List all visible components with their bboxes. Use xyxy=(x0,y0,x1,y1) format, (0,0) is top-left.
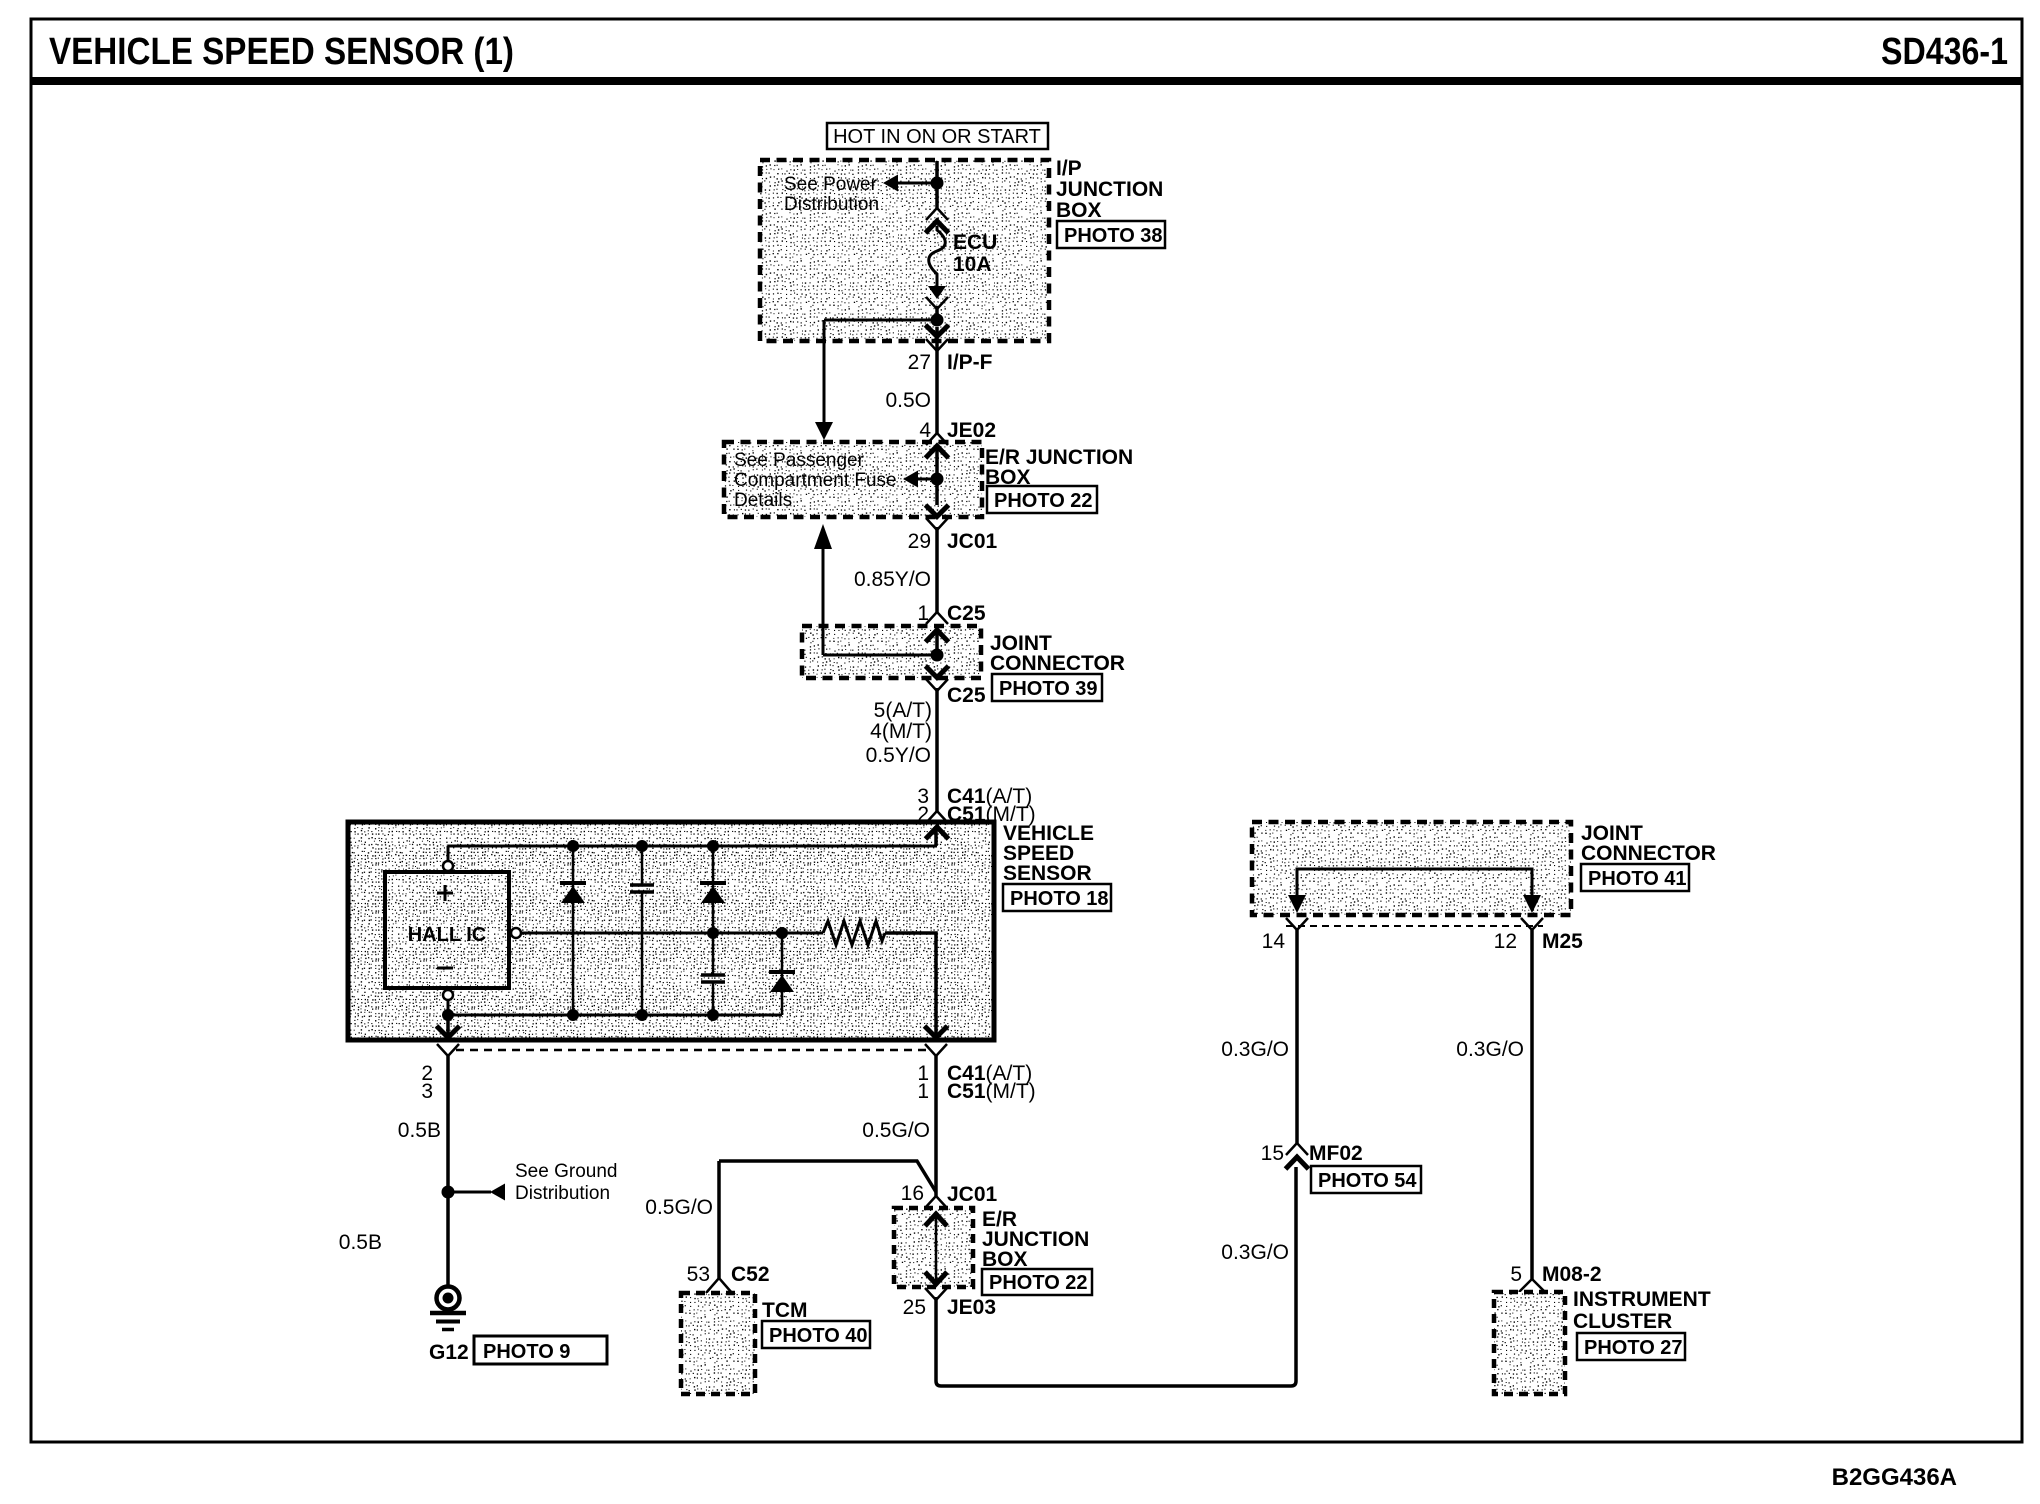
svg-text:PHOTO 18: PHOTO 18 xyxy=(1010,888,1109,910)
svg-text:SENSOR: SENSOR xyxy=(1003,862,1092,885)
fuse ECU 10A element (S-curve) xyxy=(929,226,946,288)
svg-text:PHOTO 40: PHOTO 40 xyxy=(769,1325,868,1347)
svg-text:JC01: JC01 xyxy=(947,1183,998,1206)
svg-text:0.5G/O: 0.5G/O xyxy=(645,1196,713,1219)
wire through E/R box xyxy=(935,446,939,505)
pins 1/1 and connector C41/C51 labels right xyxy=(917,1062,1035,1103)
svg-text:4(M/T): 4(M/T) xyxy=(870,720,932,743)
svg-text:0.85Y/O: 0.85Y/O xyxy=(854,568,931,591)
label: See Passenger Compartment Fuse Details xyxy=(734,450,897,511)
PHOTO 40 label box xyxy=(762,1321,870,1348)
wire: TCM branch down xyxy=(717,1161,721,1278)
I/P junction box labels xyxy=(1056,157,1163,222)
connector chevrons entering vehicle speed sensor xyxy=(926,811,948,823)
svg-text:ECU: ECU xyxy=(953,231,997,254)
wire stub to ground distribution arrow xyxy=(448,1191,491,1194)
svg-text:PHOTO 22: PHOTO 22 xyxy=(994,490,1093,512)
connector M25 boundary dashed line xyxy=(1286,925,1543,927)
svg-text:10A: 10A xyxy=(953,253,992,276)
svg-text:See Power: See Power xyxy=(784,174,878,195)
junction node in E/R box xyxy=(931,473,944,486)
junction node above fuse xyxy=(931,177,944,190)
connector chevron below pin 14 xyxy=(1286,918,1308,930)
junction nodes top rail xyxy=(567,840,579,852)
svg-text:14: 14 xyxy=(1262,930,1286,953)
connector JC01 chevrons leaving E/R box xyxy=(926,505,949,517)
PHOTO 9 label box xyxy=(474,1336,607,1364)
svg-text:PHOTO 22: PHOTO 22 xyxy=(989,1272,1088,1294)
svg-text:JC01: JC01 xyxy=(947,530,998,553)
svg-text:C51(M/T): C51(M/T) xyxy=(947,1080,1036,1103)
svg-text:M25: M25 xyxy=(1542,930,1583,953)
svg-text:5(A/T): 5(A/T) xyxy=(874,699,932,722)
PHOTO 54 label box xyxy=(1311,1166,1421,1193)
wire: hall top stub xyxy=(447,846,450,862)
svg-text:15: 15 xyxy=(1261,1142,1284,1165)
svg-text:M08-2: M08-2 xyxy=(1542,1263,1602,1286)
connector C25 chevrons entering joint connector xyxy=(926,612,948,624)
svg-text:CONNECTOR: CONNECTOR xyxy=(990,652,1125,675)
wire: JC01 to C25 xyxy=(935,527,939,612)
PHOTO 27 label box xyxy=(1577,1333,1685,1360)
joint connector box (dashed, stippled) xyxy=(802,626,981,678)
diode D2 xyxy=(700,846,726,933)
svg-text:Distribution: Distribution xyxy=(784,194,879,215)
svg-text:C25: C25 xyxy=(947,602,986,625)
svg-text:0.5B: 0.5B xyxy=(339,1231,382,1254)
E/R junction box 1 labels xyxy=(985,446,1133,489)
hall IC output terminal xyxy=(511,928,521,938)
hall IC plus mark xyxy=(437,885,453,901)
hall IC minus mark xyxy=(437,967,453,970)
connector chevron below pin 12 xyxy=(1521,918,1543,930)
svg-text:0.3G/O: 0.3G/O xyxy=(1221,1241,1289,1264)
PHOTO 38 label box xyxy=(1057,221,1165,248)
wire: battery feed into I/P box xyxy=(935,161,939,183)
PHOTO 41 label box xyxy=(1581,864,1689,891)
junction node in joint connector xyxy=(931,649,944,662)
svg-text:53: 53 xyxy=(687,1263,710,1286)
arrow to ground distribution xyxy=(490,1184,505,1201)
svg-text:G12: G12 xyxy=(429,1341,469,1364)
svg-text:JE02: JE02 xyxy=(947,419,996,442)
pin 15 / connector MF02 labels xyxy=(1261,1142,1363,1165)
svg-text:25: 25 xyxy=(903,1296,926,1319)
svg-text:JE03: JE03 xyxy=(947,1296,996,1319)
svg-text:PHOTO 38: PHOTO 38 xyxy=(1064,225,1163,247)
wire inside joint connector (U link) xyxy=(1297,869,1532,904)
svg-text:HALL IC: HALL IC xyxy=(408,924,487,946)
arrow up into E/R junction box xyxy=(814,524,832,549)
svg-text:BOX: BOX xyxy=(982,1248,1028,1271)
wire: C25 to vehicle speed sensor xyxy=(935,688,939,813)
PHOTO 39 label box xyxy=(992,674,1102,701)
pin 53 / connector C52 labels xyxy=(687,1263,770,1286)
vehicle speed sensor box (stippled) xyxy=(348,822,994,1040)
wire: joint connector branch left xyxy=(823,654,937,657)
connector 27 I/P-F leaving I/P box xyxy=(926,325,949,337)
arrow to power distribution xyxy=(883,175,898,192)
joint connector right labels xyxy=(1581,822,1716,865)
wire: branch up toward E/R box xyxy=(822,548,825,655)
svg-text:0.5G/O: 0.5G/O xyxy=(862,1119,930,1142)
diode D1 xyxy=(560,846,586,1015)
wire: top supply rail xyxy=(448,845,937,848)
svg-text:3: 3 xyxy=(421,1080,433,1103)
pin 27 / connector I/P-F labels xyxy=(908,351,993,374)
pin 2 / connector C51(M/T) labels xyxy=(917,803,1035,826)
svg-text:12: 12 xyxy=(1494,930,1517,953)
connector C25 chevrons leaving joint connector xyxy=(926,666,949,678)
wire to arrow xyxy=(918,478,933,481)
fuse label ECU 10A xyxy=(953,231,997,276)
pin 3 / connector C41(A/T) labels xyxy=(917,785,1032,808)
pin 29 / connector JC01 labels xyxy=(908,530,998,553)
arrow down at pin 14 xyxy=(1288,895,1306,913)
resistor R1 xyxy=(823,921,885,945)
capacitor C2 xyxy=(701,933,725,1015)
connector JC01 chevrons entering E/R box 2 xyxy=(925,1196,947,1208)
instrument cluster labels xyxy=(1573,1288,1711,1333)
wire: fuse to lower junction xyxy=(935,306,939,316)
joint connector box right (dashed, stippled) xyxy=(1252,822,1571,915)
node: HOT IN ON OR START label box xyxy=(827,123,1048,149)
svg-text:See Passenger: See Passenger xyxy=(734,450,865,471)
junction nodes ground rail xyxy=(442,1009,454,1021)
pin 4 / connector JE02 labels xyxy=(919,419,996,442)
svg-text:BOX: BOX xyxy=(1056,199,1102,222)
svg-text:HOT IN ON OR START: HOT IN ON OR START xyxy=(833,126,1041,148)
wire: bottom ground rail xyxy=(448,1014,782,1017)
svg-text:JUNCTION: JUNCTION xyxy=(1056,178,1163,201)
svg-text:SD436-1: SD436-1 xyxy=(1881,31,2008,73)
joint connector labels xyxy=(990,632,1125,675)
svg-text:27: 27 xyxy=(908,351,931,374)
pin 5 / connector M08-2 labels xyxy=(1510,1263,1601,1286)
wire: dot to fuse xyxy=(935,183,939,208)
PHOTO 18 label box xyxy=(1003,884,1111,911)
svg-text:0.5B: 0.5B xyxy=(398,1119,441,1142)
pins 2/3 labels left xyxy=(421,1062,433,1103)
svg-text:TCM: TCM xyxy=(762,1299,808,1322)
hall IC top terminal xyxy=(443,861,453,871)
connector JE03 chevrons leaving E/R box 2 xyxy=(925,1288,947,1300)
svg-text:Compartment Fuse: Compartment Fuse xyxy=(734,470,897,491)
connector 53 C52 fork into TCM xyxy=(706,1278,732,1293)
label: See Power Distribution xyxy=(784,174,879,215)
svg-text:1: 1 xyxy=(917,1080,929,1103)
wire: I/P-F to JE02 xyxy=(935,327,939,433)
connector MF02 chevrons xyxy=(1286,1143,1308,1155)
pin 1 / connector C25 labels xyxy=(917,602,986,625)
svg-text:PHOTO 41: PHOTO 41 xyxy=(1588,868,1687,890)
fuse ECU 10A upper terminal chevrons xyxy=(926,208,948,220)
wire: entry riser to top rail xyxy=(934,826,938,846)
wire: sensor output down to JC01 xyxy=(934,1056,938,1196)
svg-text:Distribution: Distribution xyxy=(515,1183,610,1204)
svg-text:INSTRUMENT: INSTRUMENT xyxy=(1573,1288,1711,1311)
svg-text:Details: Details xyxy=(734,490,792,511)
arrow down at pin 12 xyxy=(1523,895,1541,913)
svg-text:C52: C52 xyxy=(731,1263,770,1286)
wire: sensor ground lead down xyxy=(446,1056,450,1286)
op-amp HALL IC box xyxy=(385,872,509,988)
connector boundary dashed line below sensor xyxy=(456,1049,926,1052)
diode D3 xyxy=(769,933,795,1015)
pin 25 / connector JE03 labels xyxy=(903,1296,996,1319)
svg-text:VEHICLE SPEED SENSOR (1): VEHICLE SPEED SENSOR (1) xyxy=(49,31,514,73)
connector chevrons leaving sensor left xyxy=(437,1026,460,1038)
svg-text:0.3G/O: 0.3G/O xyxy=(1221,1038,1289,1061)
svg-text:PHOTO 9: PHOTO 9 xyxy=(483,1341,570,1363)
wire: branch to TCM (horizontal) xyxy=(719,1161,936,1192)
E/R junction box 1 (dashed, stippled) xyxy=(724,442,982,517)
PHOTO 22 label box 2 xyxy=(982,1269,1092,1295)
wire: left exit to box edge xyxy=(446,1015,450,1040)
instrument cluster box (dashed, stippled) xyxy=(1494,1292,1565,1394)
TCM box (dashed, stippled) xyxy=(681,1293,755,1394)
pin 16 / connector JC01 labels xyxy=(901,1182,998,1206)
svg-text:I/P: I/P xyxy=(1056,157,1082,180)
pin 5(A/T) 4(M/T) labels xyxy=(870,699,932,743)
E/R junction box 2 (dashed, stippled) xyxy=(894,1208,973,1287)
hall IC bottom terminal xyxy=(443,990,453,1000)
wire: hall output rail xyxy=(521,932,823,935)
PHOTO 22 label box xyxy=(987,486,1097,513)
svg-text:C25: C25 xyxy=(947,684,986,707)
connector chevrons leaving sensor right xyxy=(925,1026,948,1038)
svg-text:CONNECTOR: CONNECTOR xyxy=(1581,842,1716,865)
fuse lower terminal arrow xyxy=(928,286,946,299)
wire: pin 12 down to instrument cluster xyxy=(1530,930,1534,1280)
thick rule under title xyxy=(31,77,2022,85)
label: See Ground Distribution xyxy=(515,1161,617,1204)
wire: left branch down to E/R box xyxy=(823,320,826,424)
svg-text:0.3G/O: 0.3G/O xyxy=(1456,1038,1524,1061)
wire to arrow xyxy=(898,182,933,185)
E/R junction box 2 labels xyxy=(982,1208,1089,1271)
svg-text:B2GG436A: B2GG436A xyxy=(1832,1464,1957,1491)
svg-text:5: 5 xyxy=(1510,1263,1522,1286)
connector JE02 chevrons entering E/R box xyxy=(926,433,948,445)
wire: hall bottom stub xyxy=(447,1000,450,1015)
wire: pin 14 down to MF02 xyxy=(1295,930,1299,1143)
svg-text:PHOTO 54: PHOTO 54 xyxy=(1318,1170,1417,1192)
svg-text:29: 29 xyxy=(908,530,931,553)
svg-text:CLUSTER: CLUSTER xyxy=(1573,1310,1672,1333)
ground G12 symbol xyxy=(430,1287,466,1330)
svg-text:See Ground: See Ground xyxy=(515,1161,617,1182)
svg-text:0.5O: 0.5O xyxy=(885,389,931,412)
arrow into E/R junction box xyxy=(815,422,833,440)
svg-text:PHOTO 27: PHOTO 27 xyxy=(1584,1337,1683,1359)
wire through E/R box 2 (double arrow) xyxy=(925,1214,947,1284)
svg-text:0.5Y/O: 0.5Y/O xyxy=(866,744,931,767)
junction node on ground lead xyxy=(442,1186,455,1199)
wire: resistor to output riser xyxy=(885,933,936,1040)
junction nodes output rail xyxy=(707,927,719,939)
arrow to passenger compartment fuse details xyxy=(903,471,918,488)
vehicle speed sensor labels xyxy=(1003,822,1094,885)
I/P junction box (dashed, stippled) xyxy=(760,160,1049,341)
wire inside joint connector xyxy=(935,633,939,655)
junction node below fuse xyxy=(931,314,944,327)
svg-text:MF02: MF02 xyxy=(1309,1142,1363,1165)
wire: branch left inside I/P box xyxy=(824,319,937,322)
svg-text:I/P-F: I/P-F xyxy=(947,351,993,374)
connector M08-2 fork into instrument cluster xyxy=(1519,1279,1545,1292)
pin 12 / connector M25 labels xyxy=(1494,930,1584,953)
svg-text:PHOTO 39: PHOTO 39 xyxy=(999,678,1098,700)
wire: JE03 down, along bottom, up to MF02 xyxy=(936,1167,1296,1386)
svg-text:16: 16 xyxy=(901,1182,924,1205)
capacitor C1 xyxy=(630,846,654,1015)
svg-text:4: 4 xyxy=(919,419,931,442)
